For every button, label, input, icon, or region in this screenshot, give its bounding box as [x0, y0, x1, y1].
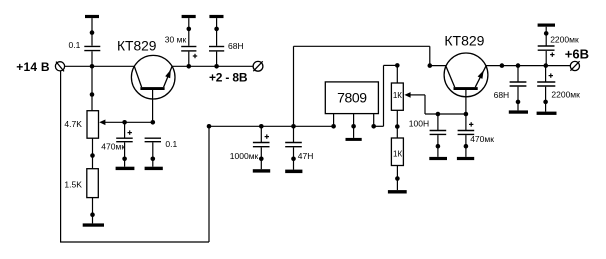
node input junction	[90, 64, 95, 69]
node rail riser and C7	[291, 124, 296, 129]
node C5 on emitter wire	[214, 64, 219, 69]
node R1 wiper to VT1 base	[151, 120, 156, 125]
wire top rail	[294, 45, 430, 47]
transistor VT2 KT829	[444, 53, 488, 97]
svg-text:2200мк: 2200мк	[550, 34, 579, 44]
node above ground R4	[395, 176, 400, 181]
node R1 wiper to C2	[122, 120, 127, 125]
node rail to C6	[259, 124, 264, 129]
svg-text:7809: 7809	[337, 90, 367, 106]
ground top for C4	[182, 15, 196, 46]
IC U1 7809 regulator	[325, 82, 378, 138]
capacitor C3 0.1 at VT1 base	[145, 138, 161, 167]
wire input node down to R1	[91, 66, 93, 110]
ground below R2	[83, 223, 104, 226]
svg-text:68Н: 68Н	[228, 41, 244, 51]
svg-text:КТ829: КТ829	[444, 33, 484, 49]
svg-text:1К: 1К	[393, 91, 402, 100]
node above ground C10	[516, 100, 521, 105]
capacitor C6 1000мк on rail	[253, 126, 270, 169]
ground below C3	[145, 167, 163, 170]
capacitor C8 100Н at VT2 base	[430, 114, 447, 157]
svg-text:+2 - 8В: +2 - 8В	[209, 70, 248, 84]
potentiometer R1 4.7K	[87, 111, 153, 139]
svg-text:470мк: 470мк	[101, 142, 125, 152]
transistor VT1 KT829	[131, 55, 175, 122]
svg-text:30 мк: 30 мк	[165, 35, 187, 45]
node emitter wire	[500, 63, 505, 68]
svg-text:68Н: 68Н	[494, 90, 510, 100]
svg-text:1К: 1К	[393, 150, 402, 159]
ground top for C11	[538, 24, 555, 46]
svg-text:2200мк: 2200мк	[551, 90, 580, 100]
ground below C6	[253, 169, 270, 172]
capacitor C2 470мк at VT1 base	[116, 122, 133, 166]
node above R1	[90, 92, 95, 97]
node C8 on base wire	[436, 112, 441, 117]
capacitor C11 2200мк upper	[538, 46, 555, 66]
ground below C12	[537, 112, 557, 115]
svg-text:1.5K: 1.5K	[64, 179, 82, 189]
node C10 on emitter wire	[516, 63, 521, 68]
capacitor C9 470мк at VT2 base	[458, 90, 475, 157]
ground below U1	[346, 138, 362, 141]
terminal X2 +2-8V output	[253, 61, 263, 71]
ground below C9	[457, 157, 474, 160]
wire VT2 emitter to output	[486, 65, 571, 67]
wire input terminal to VT1 collector	[65, 65, 135, 67]
wire R3 wiper to VT2 base	[410, 95, 466, 114]
wire rail riser to top rail	[293, 46, 295, 126]
wire loop right riser	[208, 126, 210, 242]
node VT2 collector junction	[428, 63, 433, 68]
wire R1 bottom to R2	[92, 138, 94, 169]
resistor R4 1К	[391, 138, 403, 190]
node rail corner	[207, 124, 212, 129]
node above ground C6	[259, 157, 264, 162]
svg-text:4.7K: 4.7K	[64, 119, 82, 129]
svg-text:0.1: 0.1	[69, 40, 81, 50]
node C4 on emitter wire	[187, 64, 192, 69]
node R3 top	[395, 63, 400, 68]
capacitor C5 68Н at VT1 emitter	[209, 47, 224, 67]
capacitor C4 30мк at VT1 emitter	[181, 47, 197, 67]
node U1 input pin	[331, 124, 336, 129]
ground below C7	[285, 170, 302, 174]
capacitor C7 47Н on rail	[285, 126, 302, 169]
capacitor C1 0.1 input filter	[84, 46, 100, 66]
node above ground C8	[436, 144, 441, 149]
ground below C2	[116, 167, 135, 170]
node C11 C12 on emitter wire	[544, 63, 549, 68]
svg-text:470мк: 470мк	[470, 134, 494, 144]
terminal X1 +14V input	[55, 62, 64, 72]
potentiometer R3 1К	[391, 65, 410, 138]
ground below C8	[429, 157, 447, 160]
node U1 output pin	[371, 124, 376, 129]
svg-text:100Н: 100Н	[409, 119, 429, 129]
ground top for C1	[85, 15, 99, 46]
resistor R2 1.5K	[87, 169, 99, 224]
node between R1 and R2	[90, 153, 95, 158]
capacitor C10 68Н at output	[510, 66, 527, 111]
svg-text:+6В: +6В	[565, 47, 589, 62]
svg-text:0.1: 0.1	[165, 139, 177, 149]
wire top rail drop to VT2 collector	[429, 46, 431, 65]
svg-text:1000мк: 1000мк	[230, 151, 259, 161]
node C9 on base wire	[464, 112, 469, 117]
ground top for C5	[209, 15, 223, 46]
svg-text:47Н: 47Н	[298, 151, 314, 161]
node above ground C2	[122, 157, 127, 162]
wire VT1 emitter to output terminal	[172, 65, 253, 67]
node above ground C7	[291, 157, 296, 162]
node above ground C12	[543, 100, 548, 105]
ground below C10	[509, 110, 528, 113]
node U1 ground pin	[351, 124, 356, 129]
node between R3 and R4	[395, 124, 400, 129]
wire input down left side	[60, 71, 62, 242]
svg-text:КТ829: КТ829	[117, 39, 157, 54]
terminal X3 +6V output	[570, 61, 579, 70]
node above ground R2	[90, 212, 95, 217]
wire to VT2 collector	[430, 65, 446, 67]
wire +14V bottom rail	[209, 125, 334, 127]
ground below R4	[388, 190, 407, 193]
wire bottom of loop	[60, 241, 209, 243]
svg-text:+14 В: +14 В	[16, 60, 50, 74]
node above ground C3	[151, 157, 156, 162]
wire U1 output to R3 top	[374, 65, 398, 126]
capacitor C12 2200мк lower	[537, 66, 555, 112]
node above ground C9	[464, 144, 469, 149]
